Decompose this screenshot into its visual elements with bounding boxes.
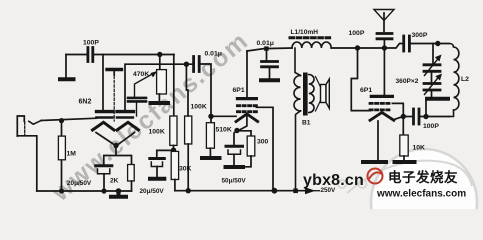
- potentiometer R3 470K: [135, 70, 167, 101]
- wire cathode network: [104, 146, 132, 165]
- node 0.01u left: [184, 61, 189, 66]
- wire screen V3 to output node: [392, 103, 403, 135]
- wire input to grid: [41, 118, 96, 120]
- wire B+ top: [247, 48, 292, 51]
- capacitor C9 100P output: [414, 109, 420, 124]
- svg-text:2K: 2K: [110, 178, 119, 185]
- plate bar V2: [237, 97, 256, 100]
- node top 470K: [157, 52, 162, 57]
- input jack J1: [17, 116, 41, 191]
- tube V2 6P1: [236, 51, 258, 131]
- arrow 250V supply: [305, 187, 316, 194]
- capacitor C1 100P: [88, 48, 93, 62]
- ground G7: [150, 177, 164, 181]
- capacitor C2 20u/50V: [96, 166, 112, 191]
- node rail 1M: [59, 188, 64, 193]
- plate lead V2: [246, 51, 248, 97]
- svg-text:1M: 1M: [67, 151, 77, 158]
- node input junction: [59, 118, 64, 123]
- capacitor C10 300P: [404, 36, 410, 51]
- variable capacitor CV1 360P: [424, 55, 442, 84]
- svg-text:100P: 100P: [83, 40, 99, 47]
- svg-text:510K: 510K: [216, 127, 232, 134]
- transformer B1 primary: [294, 48, 301, 189]
- svg-text:100K: 100K: [149, 129, 165, 136]
- ground G3: [111, 191, 126, 197]
- wire plate lead right triode: [125, 64, 192, 110]
- cathode lead V3: [377, 121, 379, 160]
- wire to C5: [157, 150, 174, 157]
- node cathode R5: [171, 148, 176, 153]
- wire top-left: [66, 54, 174, 56]
- svg-text:电子发烧友: 电子发烧友: [388, 169, 458, 185]
- screen grid V2: [237, 104, 256, 107]
- cathode lead V2: [239, 117, 247, 131]
- svg-text:300: 300: [257, 139, 269, 146]
- grid cap bar V1: [107, 68, 122, 71]
- wire bottom rail B+: [175, 190, 306, 192]
- cathode V3: [370, 112, 394, 120]
- resistor R5 100K: [170, 116, 177, 151]
- wire grid V2: [211, 115, 236, 117]
- cathode left V1: [93, 122, 115, 130]
- wire var cap stem: [432, 44, 434, 64]
- cathode V2: [236, 114, 258, 122]
- resistor R8 300: [243, 136, 255, 167]
- svg-text:10K: 10K: [413, 145, 426, 152]
- ground G5: [395, 160, 415, 164]
- cathode leads V1: [96, 133, 135, 145]
- svg-text:www.elecfans.com: www.elecfans.com: [376, 189, 466, 200]
- capacitor C3 wiper grid cap: [128, 98, 146, 116]
- plate bar left V1: [97, 110, 114, 113]
- node rail B1: [293, 189, 298, 194]
- control grid V2: [237, 110, 256, 113]
- capacitor C8 100P antenna: [377, 34, 392, 49]
- svg-text:6P1: 6P1: [360, 87, 372, 94]
- ground G0: [60, 77, 74, 81]
- svg-text:20μ/50V: 20μ/50V: [140, 188, 165, 195]
- wire after C4: [199, 64, 211, 123]
- capacitor C6 50u/50V: [226, 146, 243, 165]
- wire after C9: [419, 116, 450, 118]
- cathode right V1: [117, 122, 139, 130]
- svg-text:L1/10mH: L1/10mH: [291, 29, 319, 36]
- resistor R2 2K: [128, 165, 135, 192]
- svg-text:20μ/50V: 20μ/50V: [67, 180, 92, 187]
- plate lead VR: [383, 48, 385, 95]
- svg-text:B1: B1: [302, 120, 311, 127]
- capacitor C5 20u/50V: [150, 159, 165, 177]
- watermark red logo: [368, 169, 383, 184]
- node cathode V2: [234, 128, 239, 133]
- svg-text:300P: 300P: [412, 32, 428, 39]
- svg-text:ybx8.cn: ybx8.cn: [303, 172, 364, 189]
- wire cathode network V2: [234, 131, 251, 145]
- node output: [401, 114, 406, 119]
- node rail 100K: [186, 188, 191, 193]
- wire screen to rail: [256, 107, 273, 190]
- wire to ground stem: [65, 55, 67, 78]
- capacitor C7 0.01u bypass: [262, 50, 278, 78]
- node rail C20u: [101, 188, 106, 193]
- grid left V1: [97, 116, 114, 119]
- resistor R6 30K: [171, 151, 178, 179]
- inductor L2: [449, 44, 459, 117]
- node plate VR: [382, 45, 387, 50]
- ground G6: [363, 160, 386, 164]
- svg-text:0.01μ: 0.01μ: [257, 40, 274, 47]
- watermark diagonal www.elecfans.com: [46, 27, 254, 208]
- plate bar V3: [371, 95, 392, 98]
- ground bar var cap: [427, 97, 448, 101]
- node rail screen: [272, 188, 278, 194]
- node var cap top: [435, 41, 440, 46]
- svg-text:6P1: 6P1: [233, 87, 245, 94]
- svg-text:100K: 100K: [191, 104, 207, 111]
- resistor R7 510K: [206, 123, 214, 156]
- grid right V1: [117, 116, 134, 119]
- wire plate lead left triode: [102, 55, 104, 111]
- node grid V2: [208, 114, 213, 119]
- wire after L1: [331, 44, 402, 49]
- transformer B1 core: [303, 73, 308, 116]
- resistor R9 10K: [400, 135, 408, 160]
- svg-text:100P: 100P: [349, 30, 365, 37]
- grid lead VR: [351, 48, 370, 111]
- variable capacitor CV2 360P: [424, 74, 442, 98]
- inductor L1 10mH: [290, 38, 331, 48]
- ground G4: [151, 101, 169, 105]
- ground G1: [202, 156, 220, 160]
- transformer B1 secondary: [309, 74, 314, 112]
- ground G2: [261, 78, 278, 82]
- ground G8: [226, 165, 244, 169]
- speaker SP: [316, 77, 330, 112]
- capacitor C4 0.01u: [194, 57, 200, 72]
- resistor R4 100K: [185, 64, 192, 191]
- control grid V3: [370, 109, 392, 112]
- wire bottom-left rail: [37, 190, 132, 192]
- grid dashed lead V1: [113, 76, 115, 121]
- svg-text:6N2: 6N2: [79, 99, 92, 106]
- node cathode V1: [113, 143, 118, 148]
- svg-text:0.01μ: 0.01μ: [205, 51, 222, 58]
- svg-text:100P: 100P: [423, 123, 439, 130]
- wire 470K top lead: [159, 55, 161, 70]
- node bypass cap: [264, 46, 268, 50]
- node grid VR: [355, 45, 360, 50]
- wire node to C9: [403, 116, 412, 118]
- svg-text:30K: 30K: [179, 166, 192, 173]
- svg-text:50μ/50V: 50μ/50V: [222, 178, 247, 185]
- resistor R1 1M: [58, 121, 65, 191]
- svg-text:360P×2: 360P×2: [396, 78, 419, 85]
- node rail ground: [116, 188, 122, 194]
- screen grid V3: [370, 102, 392, 105]
- watermark circle logo right: [338, 149, 477, 240]
- wire 30K to rail: [174, 180, 176, 191]
- tube V1 6N2: [93, 70, 139, 145]
- node L2 bottom: [423, 114, 428, 119]
- tube V3 6P1: [351, 48, 394, 160]
- wire cathode to node: [394, 117, 404, 120]
- antenna ANT: [374, 10, 394, 32]
- wire var cap to output node: [425, 101, 427, 117]
- wire after C10: [409, 43, 449, 45]
- plate bar right V1: [117, 110, 134, 113]
- svg-text:470K: 470K: [133, 71, 149, 78]
- wire 470K column: [173, 55, 175, 117]
- svg-text:L2: L2: [461, 76, 469, 83]
